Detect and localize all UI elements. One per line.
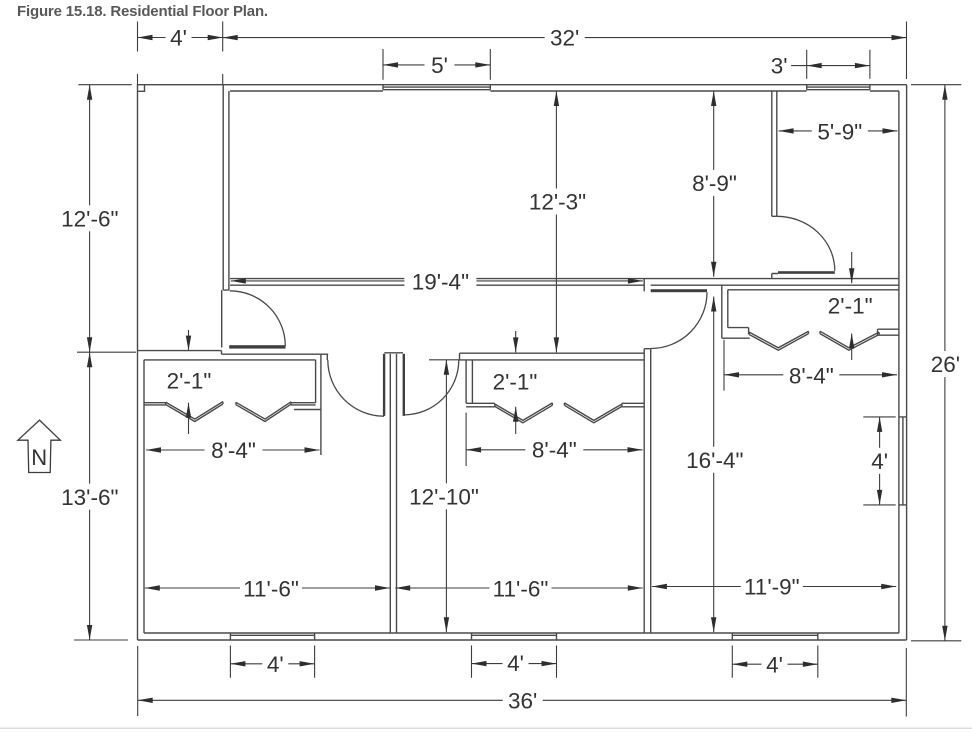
svg-text:8'-4": 8'-4" — [211, 438, 256, 463]
svg-text:12'-10": 12'-10" — [409, 484, 479, 509]
svg-text:8'-4": 8'-4" — [532, 438, 577, 463]
svg-text:4': 4' — [170, 26, 187, 51]
svg-text:8'-9": 8'-9" — [692, 171, 737, 196]
svg-text:32': 32' — [550, 26, 579, 51]
svg-text:19'-4": 19'-4" — [412, 269, 469, 294]
svg-text:4': 4' — [766, 653, 783, 678]
svg-text:N: N — [31, 445, 47, 470]
svg-text:26': 26' — [931, 352, 960, 377]
svg-text:13'-6": 13'-6" — [61, 485, 118, 510]
svg-text:2'-1": 2'-1" — [828, 294, 873, 319]
svg-text:12'-6": 12'-6" — [61, 206, 118, 231]
svg-text:36': 36' — [508, 688, 537, 713]
svg-text:4': 4' — [871, 449, 888, 474]
svg-text:2'-1": 2'-1" — [493, 369, 538, 394]
svg-text:8'-4": 8'-4" — [789, 363, 834, 388]
svg-text:2'-1": 2'-1" — [167, 368, 212, 393]
svg-text:3': 3' — [771, 54, 788, 79]
svg-text:4': 4' — [267, 652, 284, 677]
svg-text:5': 5' — [431, 53, 448, 78]
svg-text:5'-9": 5'-9" — [817, 120, 862, 145]
svg-text:12'-3": 12'-3" — [529, 190, 586, 215]
svg-text:Figure 15.18. Residential Floo: Figure 15.18. Residential Floor Plan. — [17, 3, 268, 20]
svg-text:4': 4' — [507, 651, 524, 676]
svg-text:16'-4": 16'-4" — [686, 448, 743, 473]
svg-text:11'-6": 11'-6" — [243, 576, 299, 601]
svg-text:11'-6": 11'-6" — [493, 576, 549, 601]
svg-text:11'-9": 11'-9" — [744, 574, 800, 599]
